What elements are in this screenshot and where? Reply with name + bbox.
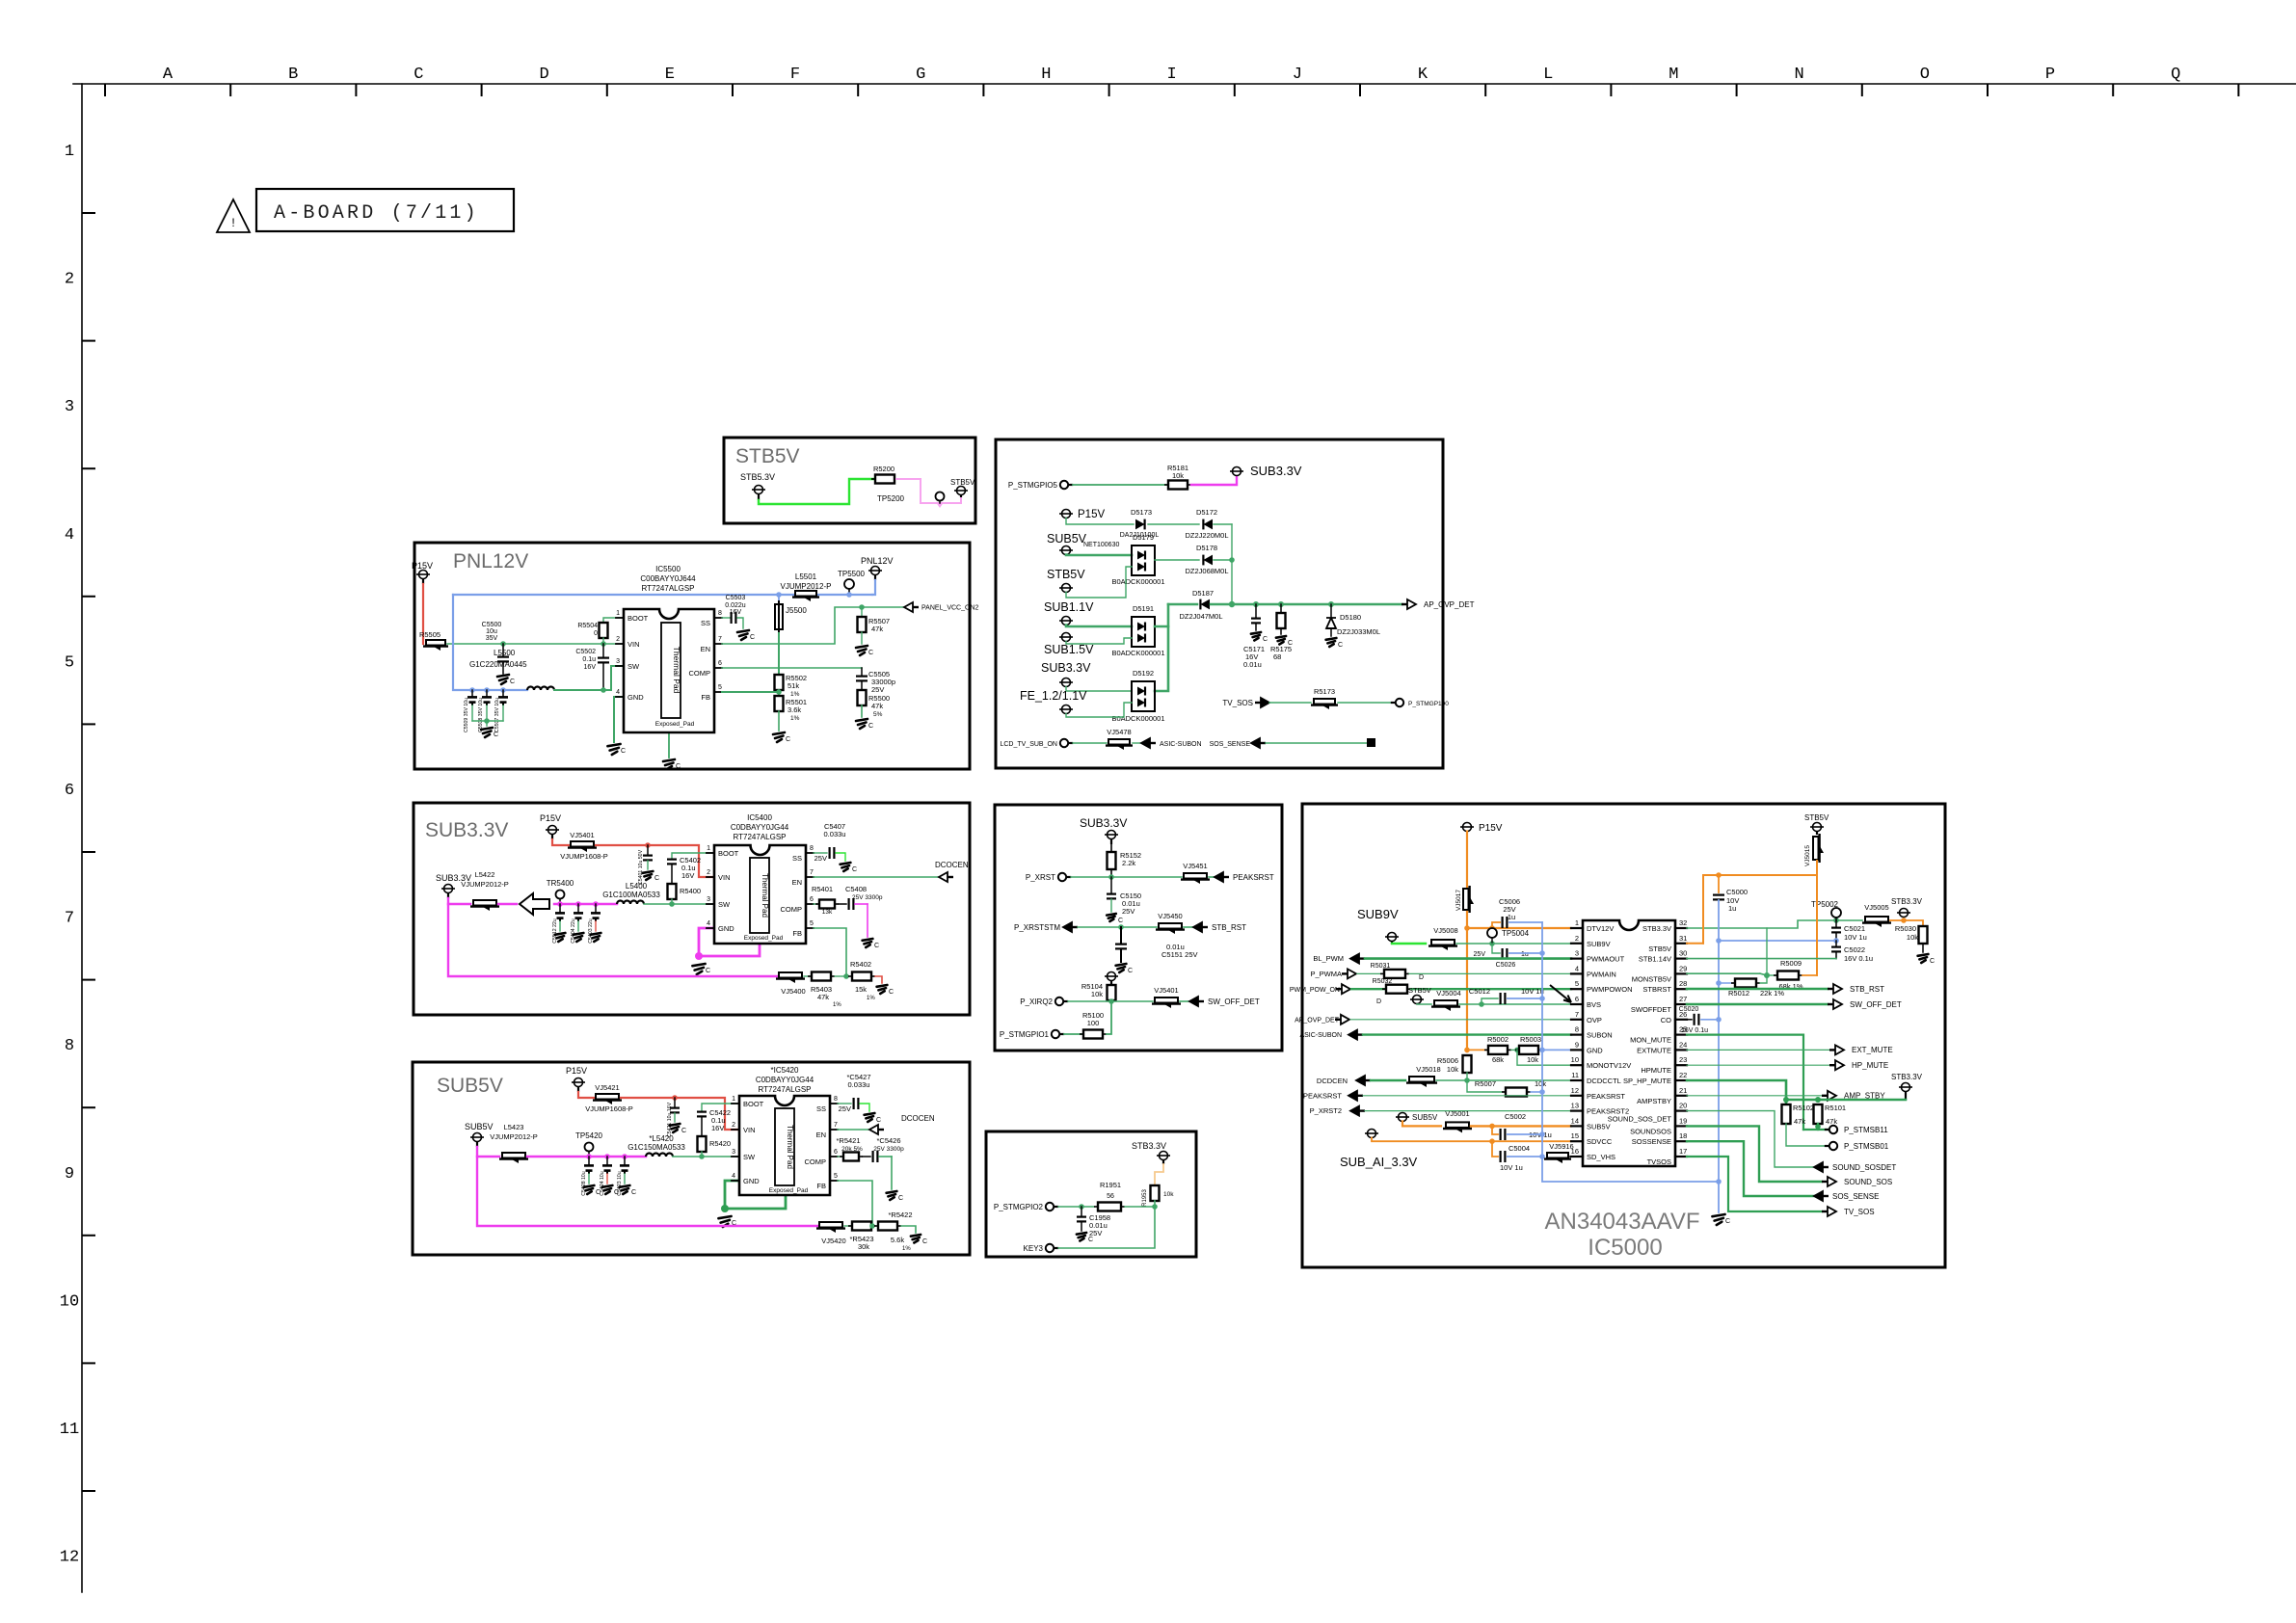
wire HPMUTE pin23 bbox=[1687, 1064, 1829, 1066]
svg-text:GND: GND bbox=[718, 924, 734, 933]
wire STB5V to D5179 lower bbox=[1066, 567, 1132, 598]
svg-text:47k: 47k bbox=[871, 625, 883, 633]
wire LCD_TV_SUB_ON to VJ5478 bbox=[1073, 742, 1107, 744]
block box PNL12V bbox=[414, 543, 970, 769]
wire R5200 to STB5V terminal (pink) bbox=[896, 479, 961, 503]
svg-text:R5401: R5401 bbox=[812, 885, 833, 893]
wire C5408 magenta to ground bbox=[867, 904, 868, 937]
arrow HP_MUTE bbox=[1829, 1064, 1835, 1066]
svg-text:10k: 10k bbox=[1447, 1065, 1458, 1074]
svg-text:HP_MUTE: HP_MUTE bbox=[1852, 1061, 1888, 1070]
ruler row tick bbox=[83, 1235, 94, 1237]
wire SUBON thick bbox=[1363, 1033, 1571, 1035]
svg-text:PEAKSRST: PEAKSRST bbox=[1303, 1092, 1342, 1101]
svg-text:P15V: P15V bbox=[412, 561, 433, 571]
ruler column tick bbox=[982, 85, 984, 95]
svg-text:P_STMGPIO5: P_STMGPIO5 bbox=[1008, 481, 1058, 490]
svg-text:1%: 1% bbox=[790, 715, 800, 722]
svg-text:C: C bbox=[621, 748, 626, 755]
svg-text:10k: 10k bbox=[1535, 1079, 1546, 1088]
wire MON_MUTE to P_STMSB11 net bbox=[1803, 1129, 1818, 1131]
wire R5009 to orange rail bbox=[1802, 974, 1817, 976]
terminal P_STMGP100 bbox=[1396, 699, 1403, 706]
IC5000 pin 25 MON_MUTE bbox=[1675, 1033, 1687, 1035]
wire MONSTB5V junction up to STB3.3V net bbox=[1766, 928, 1768, 975]
terminal SUB_AI_3.3V bbox=[1368, 1130, 1376, 1138]
svg-text:AMPSTBY: AMPSTBY bbox=[1637, 1097, 1671, 1105]
IC5000 pin 23 HPMUTE bbox=[1675, 1064, 1687, 1066]
IC5000 body bbox=[1583, 920, 1675, 1166]
svg-text:10k: 10k bbox=[1907, 933, 1918, 942]
svg-text:STB3.3V: STB3.3V bbox=[1642, 924, 1671, 933]
IC5500 thermal pad bbox=[661, 623, 681, 718]
svg-text:23: 23 bbox=[1679, 1055, 1687, 1064]
svg-text:C: C bbox=[706, 968, 710, 974]
IC5000 pin 29 MONSTB5V bbox=[1675, 972, 1687, 974]
svg-text:P15V: P15V bbox=[566, 1066, 587, 1076]
svg-text:P15V: P15V bbox=[1078, 509, 1105, 520]
svg-text:MONOTV12V: MONOTV12V bbox=[1587, 1061, 1631, 1070]
svg-text:SUB5V: SUB5V bbox=[465, 1122, 494, 1131]
ruler column tick bbox=[2112, 85, 2114, 95]
IC5400 pin 4 GND bbox=[707, 927, 714, 929]
svg-text:D5180: D5180 bbox=[1340, 613, 1361, 622]
terminal STB3.3V (right) bbox=[1900, 909, 1909, 918]
svg-text:O: O bbox=[1920, 66, 1930, 84]
ruler column tick bbox=[606, 85, 608, 95]
IC5420 thermal pad bbox=[775, 1108, 794, 1185]
svg-text:SUBON: SUBON bbox=[1587, 1031, 1613, 1040]
svg-text:1: 1 bbox=[616, 610, 620, 617]
svg-text:D5191: D5191 bbox=[1133, 604, 1154, 613]
svg-text:3: 3 bbox=[616, 658, 620, 665]
wire STB5.3V to R5200 (bright green) bbox=[759, 479, 873, 504]
svg-text:SUB5V: SUB5V bbox=[1047, 532, 1087, 545]
svg-text:COMP: COMP bbox=[781, 905, 803, 914]
svg-text:0.01u: 0.01u bbox=[1243, 660, 1262, 669]
svg-text:D5187: D5187 bbox=[1192, 589, 1214, 598]
wire SOSSENSE pin18 bbox=[1687, 1141, 1816, 1196]
wire VJ5005 to STB3.3V terminal orange bbox=[1890, 920, 1923, 926]
svg-text:MONSTB5V: MONSTB5V bbox=[1632, 974, 1671, 983]
svg-text:C: C bbox=[1338, 642, 1343, 649]
wire R5101 down to P_STMSB11 bbox=[1818, 1124, 1828, 1130]
svg-text:8: 8 bbox=[834, 1096, 838, 1103]
svg-text:P_STMGPIO2: P_STMGPIO2 bbox=[994, 1203, 1044, 1211]
svg-text:STB5V: STB5V bbox=[950, 478, 975, 487]
svg-text:AP_OVP_DET: AP_OVP_DET bbox=[1424, 600, 1475, 609]
svg-text:G1C220MA0445: G1C220MA0445 bbox=[469, 660, 527, 669]
svg-text:L: L bbox=[1543, 66, 1553, 84]
svg-text:AP_OVP_DET: AP_OVP_DET bbox=[1295, 1018, 1340, 1024]
svg-text:C: C bbox=[868, 723, 873, 730]
svg-text:TV_SOS: TV_SOS bbox=[1222, 699, 1253, 707]
svg-text:C5403 22u: C5403 22u bbox=[588, 918, 594, 943]
svg-text:A-BOARD (7/11): A-BOARD (7/11) bbox=[274, 202, 479, 225]
svg-text:R5200: R5200 bbox=[873, 465, 894, 473]
svg-text:*C5426: *C5426 bbox=[876, 1136, 900, 1145]
svg-text:B0ADCK000001: B0ADCK000001 bbox=[1111, 649, 1164, 657]
svg-text:P15V: P15V bbox=[540, 813, 561, 823]
svg-text:7: 7 bbox=[1575, 1010, 1579, 1019]
svg-text:R5504: R5504 bbox=[577, 623, 598, 629]
arrow SW_OFF_DET (IC5000) bbox=[1828, 1003, 1833, 1005]
svg-text:VJ5017: VJ5017 bbox=[1455, 890, 1462, 911]
svg-text:Exposed_Pad: Exposed_Pad bbox=[744, 935, 784, 942]
svg-text:15k: 15k bbox=[855, 985, 867, 994]
svg-text:28: 28 bbox=[1679, 979, 1687, 988]
svg-text:CO: CO bbox=[1661, 1016, 1671, 1024]
ruler row tick bbox=[83, 723, 94, 725]
IC5500 pin 7 EN bbox=[714, 643, 722, 645]
svg-text:SW: SW bbox=[627, 662, 640, 671]
svg-text:PNL12V: PNL12V bbox=[861, 556, 894, 566]
svg-text:3.6k: 3.6k bbox=[788, 705, 801, 714]
svg-text:C: C bbox=[414, 66, 423, 84]
wire orange down right side bbox=[1816, 875, 1818, 975]
svg-text:10V 1u: 10V 1u bbox=[1500, 1163, 1523, 1172]
svg-text:6: 6 bbox=[834, 1149, 838, 1156]
svg-text:GND: GND bbox=[1587, 1046, 1603, 1054]
wire dual diode outputs to main line bbox=[1155, 604, 1168, 626]
svg-text:C: C bbox=[922, 1238, 927, 1245]
svg-text:C5503: C5503 bbox=[726, 595, 746, 601]
IC5000 pin 30 STB1.14V bbox=[1675, 957, 1687, 959]
svg-text:16V: 16V bbox=[584, 664, 597, 671]
wire STBRST pin28 to arrow bbox=[1687, 988, 1828, 991]
svg-text:VJ5420: VJ5420 bbox=[821, 1237, 845, 1245]
IC5400 pin 1 BOOT bbox=[707, 852, 714, 854]
svg-text:SUB1.1V: SUB1.1V bbox=[1044, 600, 1094, 614]
arrow PEAKSRST (reset block) bbox=[1209, 876, 1216, 878]
svg-text:16V: 16V bbox=[681, 871, 694, 880]
ruler column tick bbox=[355, 85, 357, 95]
wire R5181 to SUB3.3V (magenta) bbox=[1191, 476, 1237, 485]
block box KEY3 bbox=[986, 1131, 1196, 1257]
svg-text:C5151 25V: C5151 25V bbox=[1161, 950, 1198, 959]
svg-text:7: 7 bbox=[810, 869, 814, 876]
ruler row tick bbox=[83, 467, 94, 469]
IC5000 pin 5 PWMPOWON bbox=[1571, 988, 1583, 990]
terminal P15V (diode block) bbox=[1062, 510, 1071, 519]
junction C5500 bbox=[500, 641, 506, 647]
svg-text:RT7247ALGSP: RT7247ALGSP bbox=[642, 584, 695, 593]
svg-text:G1C100MA0533: G1C100MA0533 bbox=[602, 891, 660, 899]
svg-text:PANEL_VCC_ON2: PANEL_VCC_ON2 bbox=[921, 605, 979, 612]
svg-text:TR5400: TR5400 bbox=[547, 879, 574, 888]
svg-text:C5509 35V 10u: C5509 35V 10u bbox=[464, 698, 469, 732]
svg-text:16: 16 bbox=[1571, 1147, 1579, 1156]
svg-text:R1953: R1953 bbox=[1142, 1189, 1148, 1207]
svg-text:0.1u: 0.1u bbox=[582, 656, 596, 663]
svg-text:47k: 47k bbox=[1794, 1117, 1805, 1126]
IC5000 pin 21 AMPSTBY bbox=[1675, 1095, 1687, 1097]
probe arrow at BVS bbox=[1550, 985, 1571, 1002]
svg-text:2: 2 bbox=[707, 869, 710, 876]
arrow SW_OFF_DET (reset block) bbox=[1180, 1000, 1191, 1002]
svg-text:C: C bbox=[889, 989, 894, 996]
svg-text:TVSOS: TVSOS bbox=[1647, 1157, 1671, 1166]
svg-text:P15V: P15V bbox=[1479, 823, 1503, 834]
svg-text:C: C bbox=[1088, 1237, 1093, 1243]
wire R5422 to ground green bbox=[901, 1226, 916, 1233]
IC5000 pin 10 MONOTV12V bbox=[1571, 1064, 1583, 1066]
svg-text:DZ2J220M0L: DZ2J220M0L bbox=[1185, 531, 1228, 540]
IC5420 pin 7 EN bbox=[830, 1129, 838, 1131]
wire GND pin4 to ground bbox=[614, 697, 622, 742]
svg-text:C: C bbox=[1118, 918, 1123, 924]
terminal SUB5V bbox=[1062, 546, 1071, 555]
svg-text:1u: 1u bbox=[1508, 913, 1515, 921]
IC5000 pin 3 PWMAOUT bbox=[1571, 957, 1583, 959]
wire SUB1.5V to D5191 lower bbox=[1066, 638, 1132, 644]
wire COMP net bbox=[722, 667, 862, 669]
wire P15V orange vertical bbox=[1466, 832, 1468, 888]
svg-text:SOUND_SOSDET: SOUND_SOSDET bbox=[1832, 1163, 1896, 1172]
svg-text:VJ5005: VJ5005 bbox=[1864, 903, 1888, 912]
ruler column tick bbox=[229, 85, 231, 95]
wire EXTMUTE pin24 bbox=[1687, 1049, 1829, 1051]
svg-text:R5102: R5102 bbox=[1793, 1104, 1814, 1112]
svg-text:SW: SW bbox=[718, 900, 731, 909]
svg-text:8: 8 bbox=[1575, 1025, 1579, 1034]
svg-text:B: B bbox=[288, 66, 298, 84]
terminal SUB1.5V bbox=[1062, 633, 1071, 642]
ruler row tick bbox=[83, 979, 94, 981]
svg-text:25V: 25V bbox=[1474, 951, 1486, 958]
svg-text:EXT_MUTE: EXT_MUTE bbox=[1852, 1046, 1893, 1054]
svg-text:C: C bbox=[750, 634, 755, 641]
svg-text:4: 4 bbox=[732, 1173, 735, 1180]
svg-text:C: C bbox=[876, 1117, 881, 1124]
terminal SUB3.3V (top) bbox=[1233, 467, 1241, 476]
IC5500 body bbox=[624, 609, 714, 732]
svg-text:SOUND_SOS: SOUND_SOS bbox=[1844, 1178, 1892, 1186]
wire VJ5015 down orange bbox=[1816, 861, 1818, 875]
svg-text:C5002: C5002 bbox=[1505, 1112, 1526, 1121]
IC5000 pin 18 SOSSENSE bbox=[1675, 1140, 1687, 1142]
IC5420 body bbox=[739, 1096, 830, 1195]
svg-text:1: 1 bbox=[732, 1096, 735, 1103]
bus stub square bbox=[1368, 1618, 1370, 1620]
svg-text:BL_PWM: BL_PWM bbox=[1313, 954, 1344, 963]
capacitor C5171 16V 0.01u bbox=[1255, 604, 1257, 617]
svg-text:SS: SS bbox=[816, 1104, 826, 1113]
ground R5507 bbox=[856, 646, 868, 655]
svg-text:EN: EN bbox=[701, 645, 710, 653]
svg-text:P: P bbox=[2045, 66, 2055, 84]
svg-text:C: C bbox=[510, 678, 515, 685]
wire FE to D5192 lower bbox=[1066, 703, 1132, 717]
wire SOUND_SOS_DET pin20 bbox=[1687, 1111, 1816, 1167]
svg-text:10k: 10k bbox=[1163, 1191, 1174, 1198]
wire BOOT to C5422 bbox=[702, 1104, 737, 1110]
wire exposed pad to ground bbox=[668, 732, 670, 758]
svg-text:R5402: R5402 bbox=[850, 960, 871, 969]
svg-text:0.022u: 0.022u bbox=[725, 602, 746, 609]
wire EN to PANEL_VCC_ON2 bbox=[722, 607, 904, 644]
svg-text:B0ADCK000001: B0ADCK000001 bbox=[1111, 714, 1164, 723]
IC5500 pin 6 COMP bbox=[714, 667, 722, 669]
ruler column tick bbox=[1359, 85, 1361, 95]
terminal P15V (IC5000) bbox=[1463, 823, 1472, 832]
IC5500 pin 4 GND bbox=[616, 696, 624, 698]
svg-text:RT7247ALGSP: RT7247ALGSP bbox=[734, 833, 787, 841]
IC5400 pin 2 VIN bbox=[707, 876, 714, 878]
svg-text:Thermal Pad: Thermal Pad bbox=[786, 1125, 794, 1169]
svg-text:30: 30 bbox=[1679, 949, 1687, 958]
svg-text:6: 6 bbox=[810, 896, 814, 903]
svg-text:R1951: R1951 bbox=[1100, 1181, 1121, 1189]
svg-text:8: 8 bbox=[718, 610, 722, 617]
svg-text:R5400: R5400 bbox=[680, 887, 701, 895]
wire MONOTV12V bbox=[1517, 1050, 1571, 1065]
wire SUB5V orange to VJ5001 bbox=[1402, 1122, 1441, 1127]
wire P_XIRQ2 line bbox=[1068, 1000, 1153, 1002]
IC5400 thermal pad bbox=[750, 858, 769, 933]
svg-text:C5022: C5022 bbox=[1844, 945, 1865, 954]
svg-text:18: 18 bbox=[1679, 1131, 1687, 1140]
svg-text:68: 68 bbox=[1273, 652, 1281, 661]
svg-text:21: 21 bbox=[1679, 1086, 1687, 1095]
svg-text:C5512 22u: C5512 22u bbox=[552, 918, 558, 943]
block box IC5000 bbox=[1302, 804, 1945, 1267]
svg-text:RT7247ALGSP: RT7247ALGSP bbox=[759, 1085, 812, 1094]
IC5420 pin 1 BOOT bbox=[732, 1103, 739, 1104]
svg-text:VJ5478: VJ5478 bbox=[1107, 728, 1131, 736]
wire EN to DCOCEN (SUB5V) bbox=[838, 1129, 871, 1131]
IC5000 pin 19 SOUNDSOS bbox=[1675, 1125, 1687, 1127]
ruler column tick bbox=[1610, 85, 1612, 95]
ruler row tick bbox=[83, 851, 94, 853]
IC5000 pin 1 DTV12V bbox=[1571, 927, 1583, 929]
resistor R5175 68 bbox=[1280, 604, 1282, 613]
svg-text:5: 5 bbox=[718, 684, 722, 691]
svg-text:R5003: R5003 bbox=[1520, 1035, 1541, 1044]
svg-text:R5006: R5006 bbox=[1437, 1056, 1458, 1065]
svg-text:10V 1u: 10V 1u bbox=[1844, 933, 1867, 942]
svg-text:*IC5420: *IC5420 bbox=[771, 1066, 799, 1075]
svg-text:*R5422: *R5422 bbox=[888, 1211, 912, 1219]
wire SUB3.3V magenta bbox=[448, 898, 470, 904]
svg-text:29: 29 bbox=[1679, 964, 1687, 972]
IC5000 pin 6 BVS bbox=[1571, 1003, 1583, 1005]
wire BOOT to C5402 bbox=[672, 853, 712, 858]
svg-text:8: 8 bbox=[810, 845, 814, 852]
svg-text:P_STMGP100: P_STMGP100 bbox=[1408, 701, 1449, 707]
svg-text:TV_SOS: TV_SOS bbox=[1844, 1208, 1875, 1216]
svg-text:C: C bbox=[868, 650, 873, 656]
wire TVSOS pin17 bbox=[1687, 1157, 1822, 1211]
svg-text:GND: GND bbox=[743, 1177, 760, 1185]
wire SOUNDSOS pin19 bbox=[1687, 1126, 1822, 1182]
svg-text:D5192: D5192 bbox=[1133, 669, 1154, 678]
svg-text:COMP: COMP bbox=[689, 669, 711, 678]
block box SUB5V bbox=[413, 1062, 970, 1255]
svg-text:TP5500: TP5500 bbox=[838, 570, 866, 578]
svg-text:5%: 5% bbox=[873, 711, 883, 718]
svg-text:C0DBAYY0JG44: C0DBAYY0JG44 bbox=[731, 823, 789, 832]
wire FB to R5502/R5501 junction bbox=[722, 691, 779, 693]
svg-text:25V 3300p: 25V 3300p bbox=[852, 894, 883, 901]
svg-text:STB5V: STB5V bbox=[1804, 813, 1829, 822]
wire DTV12V orange bbox=[1467, 927, 1571, 929]
svg-text:STB_RST: STB_RST bbox=[1212, 923, 1246, 932]
svg-text:3: 3 bbox=[707, 896, 710, 903]
svg-text:VJ5451: VJ5451 bbox=[1183, 862, 1207, 870]
IC5420 pin 5 FB bbox=[830, 1180, 838, 1182]
IC5400 pin 6 COMP bbox=[806, 903, 814, 905]
wire P15V red to VJ5401 bbox=[552, 839, 569, 845]
capacitor C5021 10V 1u bbox=[1835, 920, 1837, 926]
svg-text:C5428 10u: C5428 10u bbox=[581, 1171, 587, 1195]
svg-text:SUB5V: SUB5V bbox=[437, 1075, 503, 1097]
ruler column tick bbox=[1736, 85, 1738, 95]
IC5000 pin 17 TVSOS bbox=[1675, 1156, 1687, 1157]
svg-text:C5020: C5020 bbox=[1679, 1006, 1699, 1013]
warning triangle bbox=[217, 200, 250, 232]
svg-text:C5004: C5004 bbox=[1508, 1144, 1530, 1153]
IC5400 pin 3 SW bbox=[707, 903, 714, 905]
capacitor C5022 16V 0.1u bbox=[1835, 941, 1837, 945]
svg-text:47k: 47k bbox=[817, 993, 829, 1001]
ruler row tick bbox=[83, 1106, 94, 1108]
svg-text:7: 7 bbox=[718, 636, 722, 643]
svg-text:DCDCCTL: DCDCCTL bbox=[1587, 1077, 1621, 1085]
svg-text:68k: 68k bbox=[1492, 1055, 1504, 1064]
svg-text:C: C bbox=[898, 1195, 903, 1202]
svg-text:P_XRSTSTM: P_XRSTSTM bbox=[1014, 923, 1060, 932]
svg-text:VIN: VIN bbox=[627, 640, 640, 649]
svg-text:C5423 10u: C5423 10u bbox=[617, 1171, 623, 1195]
wire SUB9V bright green bbox=[1392, 943, 1426, 945]
svg-text:SP_HP_MUTE: SP_HP_MUTE bbox=[1623, 1077, 1671, 1085]
svg-text:STB3.3V: STB3.3V bbox=[1132, 1141, 1166, 1151]
svg-text:VJUMP2012-P: VJUMP2012-P bbox=[781, 582, 832, 591]
wire GND pin magenta to exposed pad bbox=[699, 928, 760, 956]
svg-text:R5420: R5420 bbox=[709, 1139, 731, 1148]
svg-text:STB5V: STB5V bbox=[1408, 986, 1431, 995]
svg-text:5.6k: 5.6k bbox=[891, 1236, 904, 1244]
svg-text:9: 9 bbox=[1575, 1040, 1579, 1049]
svg-text:C5507 35V 10u: C5507 35V 10u bbox=[494, 698, 500, 732]
svg-text:STB5V: STB5V bbox=[1648, 945, 1671, 953]
svg-text:C5000: C5000 bbox=[1726, 888, 1748, 896]
IC5000 pin 16 SD_VHS bbox=[1571, 1156, 1583, 1157]
svg-text:VJUMP2012-P: VJUMP2012-P bbox=[461, 880, 509, 889]
ruler column tick bbox=[1108, 85, 1110, 95]
IC5500 pin 8 SS bbox=[714, 617, 722, 619]
svg-text:STB_RST: STB_RST bbox=[1850, 985, 1884, 994]
svg-text:R5002: R5002 bbox=[1487, 1035, 1508, 1044]
IC5500 pin 2 VIN bbox=[616, 643, 624, 645]
svg-text:13: 13 bbox=[1571, 1102, 1579, 1110]
ruler column tick bbox=[1861, 85, 1863, 95]
svg-text:ASIC-SUBON: ASIC-SUBON bbox=[1299, 1032, 1342, 1039]
wire C5000 to blue bus bbox=[1718, 900, 1720, 941]
svg-text:5: 5 bbox=[1575, 979, 1579, 988]
svg-text:VJ5421: VJ5421 bbox=[595, 1083, 619, 1092]
svg-text:DZ2J033M0L: DZ2J033M0L bbox=[1337, 627, 1380, 636]
wire FB down to feedback node (SUB5V) bbox=[838, 1181, 872, 1226]
wire STB5V pin31 orange riser bbox=[1703, 875, 1817, 944]
svg-text:12: 12 bbox=[1571, 1086, 1579, 1095]
sheet title box A-BOARD (7/11) bbox=[256, 189, 514, 231]
svg-text:BOOT: BOOT bbox=[627, 614, 649, 623]
svg-text:C5021: C5021 bbox=[1844, 924, 1865, 933]
svg-text:P_XRST2: P_XRST2 bbox=[1310, 1106, 1342, 1115]
svg-text:1: 1 bbox=[1575, 918, 1579, 927]
